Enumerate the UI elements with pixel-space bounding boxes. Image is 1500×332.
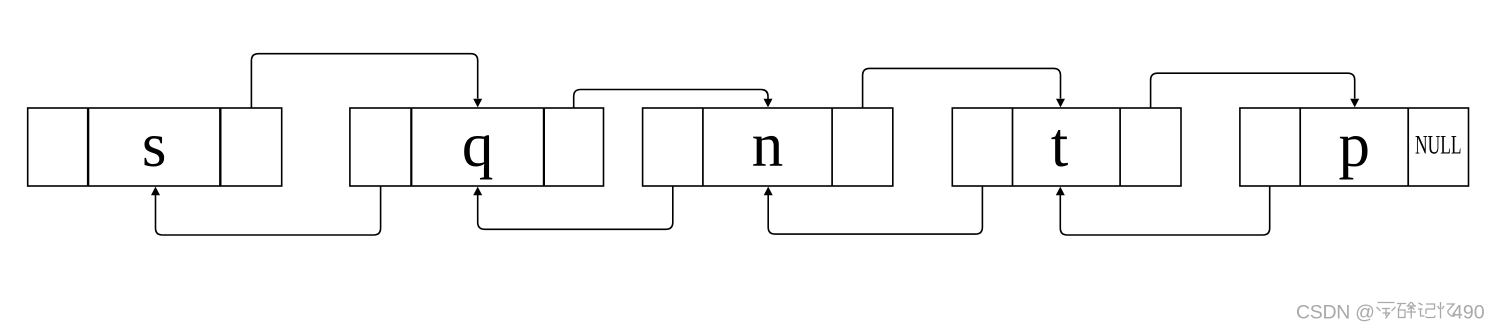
- wire next q to n: [574, 90, 773, 109]
- node box s: [28, 108, 282, 186]
- node box n: [643, 108, 893, 186]
- svg-text:t: t: [1051, 110, 1069, 180]
- watermark CSDN @零碎记忆490: [1296, 302, 1485, 324]
- node box p: [1240, 108, 1469, 186]
- svg-text:CSDN @: CSDN @: [1296, 302, 1375, 324]
- svg-text:n: n: [752, 110, 784, 180]
- svg-text:NULL: NULL: [1415, 131, 1462, 160]
- glyph 零: [1377, 303, 1396, 319]
- wire prev n to q: [473, 186, 673, 229]
- wire prev t to n: [764, 186, 983, 234]
- svg-text:s: s: [142, 110, 167, 180]
- wire next t to p: [1151, 73, 1360, 108]
- wire prev q to s: [151, 186, 381, 235]
- glyph 忆: [1438, 302, 1456, 319]
- node box t: [952, 108, 1181, 186]
- wire next s to q: [251, 54, 482, 108]
- glyph 记: [1418, 303, 1435, 318]
- node box q: [350, 108, 604, 186]
- svg-text:q: q: [462, 110, 494, 180]
- glyph 碎: [1397, 302, 1416, 319]
- wire prev p to t: [1056, 186, 1270, 235]
- svg-text:p: p: [1339, 110, 1371, 180]
- svg-text:490: 490: [1452, 302, 1485, 324]
- wire next n to t: [863, 68, 1065, 108]
